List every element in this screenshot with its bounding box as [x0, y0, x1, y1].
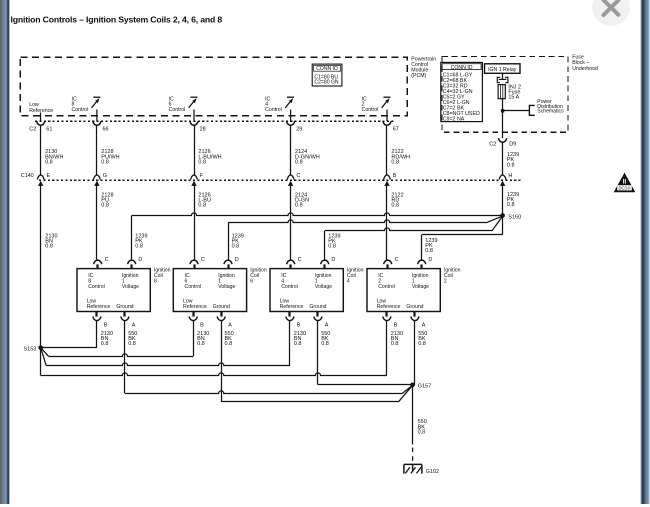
svg-text:C2: C2 [489, 142, 496, 148]
wire 550 BK G157 to G102 [412, 385, 414, 445]
ground splice G157 [410, 382, 415, 387]
svg-text:29: 29 [296, 127, 302, 133]
svg-text:B: B [297, 323, 301, 329]
coil 6 terminal B [192, 312, 194, 317]
svg-text:0.8: 0.8 [391, 203, 399, 209]
svg-text:Ground: Ground [213, 304, 230, 310]
wire 550 BK coil 8 to G157 [125, 391, 403, 394]
coil 4 terminal B [288, 312, 290, 317]
coil 4 terminal A [316, 312, 318, 317]
svg-text:C2=80 GN: C2=80 GN [314, 80, 339, 86]
svg-text:B: B [393, 173, 397, 179]
svg-text:Voltage: Voltage [122, 284, 139, 290]
wire 2130 BN coil 2 low reference [386, 321, 388, 376]
svg-text:D: D [138, 257, 142, 263]
svg-text:0.8: 0.8 [225, 341, 233, 347]
wire relay to fuse clip [502, 73, 504, 79]
wire 2130 BN to coil 6 B [41, 348, 49, 357]
junction to power distribution [501, 109, 504, 112]
svg-text:67: 67 [393, 127, 399, 133]
wire 2126 L-BU to coil 6 C terminal [194, 186, 196, 260]
svg-text:(PCM): (PCM) [411, 73, 426, 79]
coil 8 terminal C [94, 260, 102, 264]
coil 2 terminal D [418, 260, 426, 264]
wire 1239 PK bus to coil 8 [132, 213, 503, 216]
svg-text:Control: Control [362, 107, 379, 113]
wire 2130 BN/WH [40, 125, 42, 175]
svg-text:Ignition Controls – Ignition S: Ignition Controls – Ignition System Coil… [11, 14, 223, 24]
PCM module dashed boundary [20, 57, 407, 116]
ignition coil 8 box [77, 269, 150, 312]
wire 2122 RD/WH [386, 125, 388, 175]
svg-text:0.8: 0.8 [321, 341, 329, 347]
svg-text:C: C [298, 257, 302, 263]
IC 6 control switch [190, 96, 197, 98]
svg-text:A: A [228, 323, 232, 329]
fuse holder clip [497, 77, 500, 82]
svg-text:0.8: 0.8 [507, 202, 515, 208]
connector C140 dotted line [39, 179, 522, 181]
wire 2124 D-GN to coil 4 C terminal [290, 186, 292, 260]
off-page bracket [529, 105, 534, 115]
svg-text:C: C [296, 173, 300, 179]
terminal pin 29 female cup [287, 121, 295, 125]
svg-text:Reference: Reference [87, 304, 111, 310]
right viewer bar [640, 0, 650, 504]
ignition coil 2 box [367, 269, 440, 312]
note warning triangle [614, 173, 636, 193]
svg-text:6: 6 [250, 279, 253, 285]
wire 550 BK coil 4 to G157 [318, 384, 413, 386]
coil 6 terminal A [220, 312, 222, 317]
svg-text:IGN 1 Relay: IGN 1 Relay [488, 67, 517, 73]
svg-text:Control: Control [169, 107, 186, 113]
svg-text:4: 4 [347, 279, 350, 285]
svg-text:G: G [103, 173, 107, 179]
svg-text:E: E [47, 173, 51, 179]
terminal C140-C pair [287, 175, 294, 180]
svg-text:C: C [395, 257, 399, 263]
coil 2 terminal A [413, 312, 415, 317]
svg-text:2: 2 [444, 279, 447, 285]
svg-text:0.8: 0.8 [135, 244, 143, 250]
coil 6 terminal C [190, 260, 198, 264]
svg-text:S160: S160 [508, 214, 521, 220]
close button [592, 0, 630, 26]
svg-text:Voltage: Voltage [412, 284, 429, 290]
svg-text:Reference: Reference [29, 108, 53, 114]
ignition coil 4 box [270, 269, 343, 312]
terminal C140-F pair [191, 175, 198, 180]
wire 2130 BN coil 6 low reference [193, 321, 195, 357]
terminal pin 67 female cup [383, 121, 391, 125]
svg-text:B: B [200, 323, 204, 329]
wire 1239 PK C140-H to S160 [502, 186, 504, 216]
svg-text:0.8: 0.8 [391, 160, 399, 166]
wire 2128 PU/WH [96, 125, 98, 175]
svg-text:D9: D9 [509, 142, 516, 148]
svg-text:B: B [104, 323, 108, 329]
svg-text:Control: Control [88, 284, 105, 290]
svg-text:A: A [132, 323, 136, 329]
svg-text:0.8: 0.8 [295, 203, 303, 209]
wire 2130 BN C140-E to S153 [40, 186, 42, 348]
terminal C140-G pair [94, 175, 101, 180]
svg-text:D: D [331, 257, 335, 263]
terminal pin 28 female cup [190, 121, 198, 125]
ground G102 symbol [404, 463, 422, 465]
svg-text:II: II [623, 178, 627, 185]
svg-text:C: C [105, 257, 109, 263]
svg-text:C9=2 NA: C9=2 NA [443, 117, 465, 123]
svg-text:0.8: 0.8 [101, 160, 109, 166]
svg-text:61: 61 [46, 127, 52, 133]
svg-text:S153: S153 [24, 346, 37, 352]
svg-text:Reference: Reference [183, 304, 207, 310]
svg-text:Ground: Ground [309, 304, 326, 310]
wire 1239 PK to coil 2 [502, 216, 504, 235]
svg-text:Ground: Ground [406, 304, 423, 310]
splice S160 [500, 213, 505, 218]
svg-text:0.8: 0.8 [507, 162, 515, 168]
svg-text:CONN ID: CONN ID [316, 66, 338, 72]
svg-text:8: 8 [154, 279, 157, 285]
svg-text:C2: C2 [29, 127, 36, 133]
coil 4 terminal D [321, 260, 329, 264]
svg-text:Schematics: Schematics [537, 109, 564, 115]
wire fuse to junction [502, 99, 504, 111]
svg-text:Control: Control [378, 284, 395, 290]
PCM CONN ID table [312, 64, 342, 86]
wire 550 BK coil 6 ground [221, 321, 223, 402]
wire 2126 L-BU/WH [194, 125, 196, 175]
svg-text:0.8: 0.8 [198, 203, 206, 209]
svg-text:0.8: 0.8 [128, 341, 136, 347]
svg-text:0.8: 0.8 [101, 341, 109, 347]
IC 8 control switch [93, 96, 100, 98]
wire 2122 RD to coil 2 C terminal [386, 186, 388, 260]
svg-text:15 A: 15 A [508, 95, 519, 101]
coil 2 terminal B [385, 312, 387, 317]
svg-text:Control: Control [281, 284, 298, 290]
left viewer bar [0, 0, 10, 504]
svg-text:G157: G157 [418, 384, 431, 390]
svg-text:0.8: 0.8 [232, 244, 240, 250]
wire 550 BK coil 4 ground [317, 321, 319, 385]
coil 4 terminal C [287, 260, 295, 264]
power wire inside fuse block down [502, 111, 504, 139]
relay IGN 1 [485, 64, 521, 74]
terminal C140-H pair [499, 175, 506, 180]
svg-text:0.8: 0.8 [295, 160, 303, 166]
terminal pin 61 female cup [37, 121, 45, 125]
svg-text:Reference: Reference [377, 304, 401, 310]
connector C2 dotted line [35, 120, 394, 122]
svg-text:Control: Control [265, 107, 282, 113]
svg-text:0.8: 0.8 [45, 244, 53, 250]
svg-text:Reference: Reference [280, 304, 304, 310]
coil 8 terminal A [123, 312, 125, 317]
wire 2130 BN to coil 8 B [41, 347, 97, 349]
coil 8 terminal D [128, 260, 136, 264]
svg-text:G102: G102 [426, 469, 439, 475]
svg-text:Voltage: Voltage [218, 284, 235, 290]
svg-text:DC3-II: DC3-II [618, 186, 630, 191]
coil 2 terminal C [384, 260, 392, 264]
svg-text:0.8: 0.8 [101, 203, 109, 209]
svg-text:A: A [325, 323, 329, 329]
wire 2130 BN coil 8 low reference [96, 321, 98, 348]
svg-text:0.8: 0.8 [45, 160, 53, 166]
wire 2128 PU to coil 8 C terminal [96, 186, 98, 260]
svg-text:66: 66 [103, 127, 109, 133]
wire 550 BK coil 6 to G157 [221, 401, 398, 403]
coil 8 terminal B [95, 312, 97, 317]
wire 550 BK coil 8 ground [124, 321, 126, 394]
IC 2 control switch [383, 96, 390, 98]
fuse INJ 2 15 A [498, 85, 505, 99]
wire 2130 BN to coil 4 B [41, 348, 47, 366]
svg-text:F: F [200, 173, 204, 179]
svg-text:C: C [201, 257, 205, 263]
Fuse Block CONN ID table [441, 62, 483, 121]
svg-text:0.8: 0.8 [198, 160, 206, 166]
wire low reference stub [40, 113, 42, 122]
svg-text:D: D [428, 257, 432, 263]
svg-text:Underhood: Underhood [572, 66, 598, 72]
svg-text:0.8: 0.8 [197, 341, 205, 347]
wire 1239 PK bus to coil 6 [228, 220, 486, 223]
terminal pin 66 female cup [93, 121, 101, 125]
svg-text:A: A [422, 323, 426, 329]
wire 2130 BN coil 4 low reference [289, 321, 291, 366]
Fuse Block dashed boundary [442, 57, 568, 133]
svg-text:C140: C140 [21, 173, 34, 179]
wire 1239 PK bus to coil 4 [325, 228, 492, 231]
svg-text:B: B [394, 323, 398, 329]
svg-text:0.8: 0.8 [425, 248, 433, 254]
splice S153 [38, 345, 43, 350]
svg-text:28: 28 [200, 127, 206, 133]
svg-text:0.8: 0.8 [294, 341, 302, 347]
svg-text:0.8: 0.8 [418, 430, 426, 436]
svg-text:CONN ID: CONN ID [451, 65, 473, 71]
wire 2124 D-GN/WH [290, 125, 292, 175]
svg-text:Control: Control [72, 107, 89, 113]
svg-text:H: H [508, 173, 512, 179]
wire 2130 BN to coil 2 B [40, 348, 42, 376]
svg-text:D: D [235, 257, 239, 263]
svg-text:Voltage: Voltage [315, 284, 332, 290]
wire to power distribution reference [503, 110, 530, 112]
svg-text:Control: Control [185, 284, 202, 290]
svg-text:Ground: Ground [116, 304, 133, 310]
wire 550 BK coil 2 ground to G157 [414, 321, 416, 385]
svg-text:0.8: 0.8 [391, 341, 399, 347]
svg-text:0.8: 0.8 [418, 341, 426, 347]
ignition coil 6 box [173, 269, 246, 312]
coil 6 terminal D [224, 260, 232, 264]
wire 1239 PK fuse block to C140 [502, 142, 504, 175]
terminal D9 female cup [499, 138, 507, 142]
IC 4 control switch [287, 96, 294, 98]
terminal C140-B pair [384, 175, 391, 180]
svg-text:0.8: 0.8 [328, 244, 336, 250]
terminal C140-E pair [37, 175, 44, 180]
